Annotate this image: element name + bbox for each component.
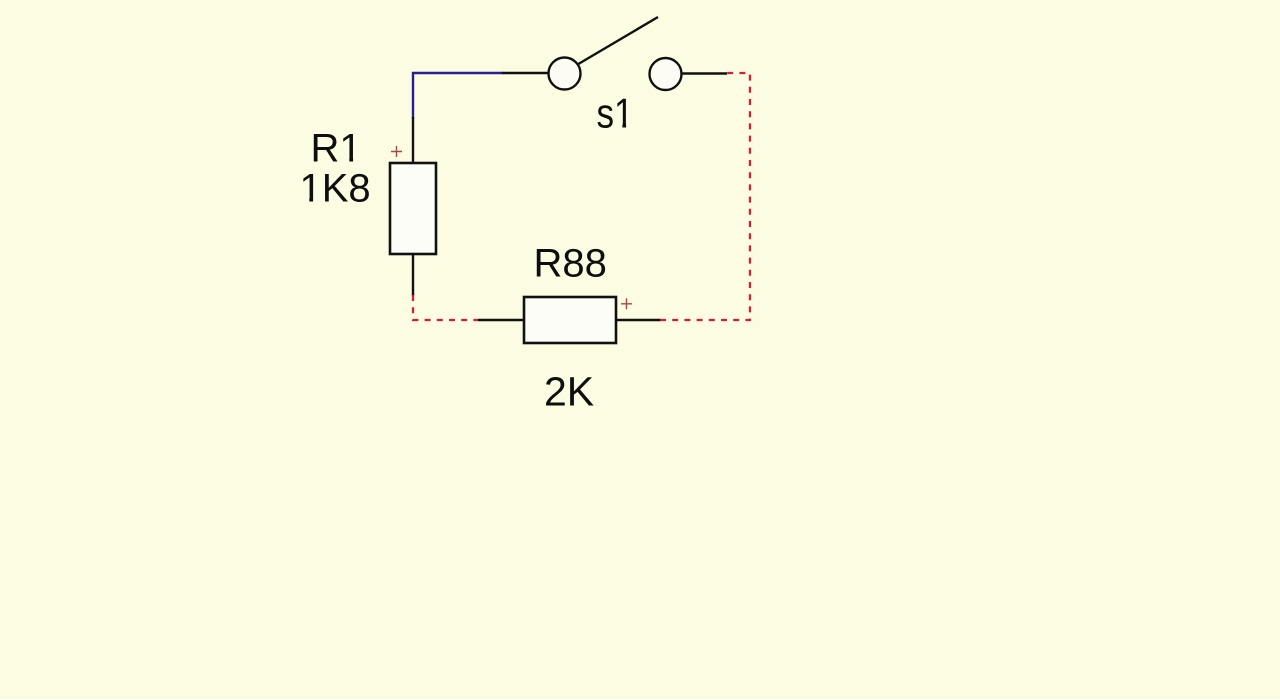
wire blue from switch left pin to R1 top — [413, 73, 503, 118]
svg-text:s1: s1 — [597, 90, 634, 137]
wire pin switch left — [502, 72, 548, 74]
wire pin R88 right — [615, 319, 661, 321]
svg-text:R1: R1 — [311, 127, 362, 171]
node plus marker at R88 pin 2 — [621, 298, 632, 309]
wire pin R1 bottom — [412, 254, 414, 296]
resistor R1 — [390, 163, 436, 254]
wire pin switch right — [682, 72, 727, 74]
wire pin R88 left — [478, 319, 525, 321]
white strip bottom edge — [0, 699, 1280, 700]
svg-text:1K8: 1K8 — [300, 167, 371, 211]
svg-text:R88: R88 — [534, 242, 607, 286]
wire red dashed from R1 bottom to R88 left — [413, 295, 479, 320]
resistor R88 — [524, 297, 616, 343]
svg-text:2K: 2K — [544, 369, 594, 415]
wire pin R1 top — [412, 117, 414, 164]
switch s1 contact right — [650, 58, 682, 90]
switch s1 lever — [578, 17, 659, 65]
wire red dashed from switch right pin to R88 right — [660, 73, 750, 320]
node plus marker at R1 pin 1 — [391, 146, 402, 157]
switch s1 contact left — [549, 58, 581, 90]
